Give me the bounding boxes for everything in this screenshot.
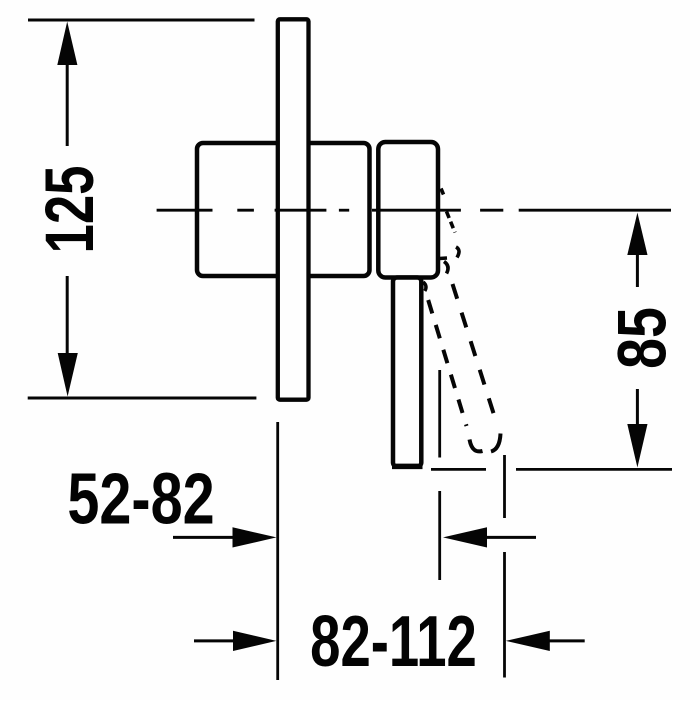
svg-text:85: 85 xyxy=(604,307,681,369)
cartridge escutcheon rectangle xyxy=(378,142,438,278)
lever alternate position dashed right edge xyxy=(453,284,496,421)
dimension 82-112 arrow right xyxy=(233,631,276,651)
lever tip extension line xyxy=(503,455,506,518)
handle bottom reference line xyxy=(431,468,486,471)
svg-text:52-82: 52-82 xyxy=(67,458,214,539)
dimension 52-82 arrow right xyxy=(233,527,277,547)
wall plate rectangle xyxy=(278,19,309,399)
lever alternate position dashed bottom cap xyxy=(470,440,483,452)
dimension 85 line upper segment xyxy=(636,252,639,287)
plate extension line xyxy=(276,422,279,680)
mixer body rectangle xyxy=(197,143,370,276)
dimension 85 arrow up xyxy=(627,213,647,255)
lever handle pivot bump xyxy=(423,282,426,291)
dimension 85 arrow down xyxy=(627,424,647,468)
lever handle outline xyxy=(393,278,421,467)
lever alternate position dashed left edge xyxy=(428,300,466,426)
dimension 85 line lower segment xyxy=(636,389,639,426)
dimension 82-112 tail right xyxy=(547,639,585,642)
dimension 125 line upper segment xyxy=(66,62,69,146)
dimension 82-112 arrow left xyxy=(506,631,550,651)
svg-text:82-112: 82-112 xyxy=(310,601,477,682)
escutcheon extension line xyxy=(438,370,441,458)
dimension 125 line lower segment xyxy=(66,276,69,356)
dimension 52-82 tail right xyxy=(484,536,536,539)
svg-text:125: 125 xyxy=(31,165,109,253)
center axis chain line xyxy=(157,209,671,212)
dimension 52-82 tail left xyxy=(173,536,236,539)
lever alternate position pivot marks xyxy=(440,256,448,260)
dimension 125 bottom extension line xyxy=(28,397,257,400)
dimension 125 arrow up xyxy=(57,22,77,66)
dimension 125 arrow down xyxy=(58,353,78,397)
dimension 125 top extension line xyxy=(28,19,255,22)
dimension 82-112 tail left xyxy=(194,639,237,642)
dimension 52-82 arrow left xyxy=(443,527,487,547)
